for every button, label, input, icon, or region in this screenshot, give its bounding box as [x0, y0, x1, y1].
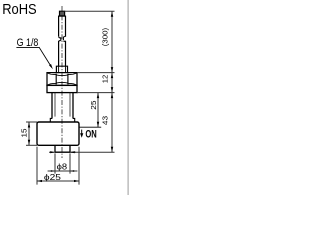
- leader arrowhead: [49, 64, 53, 69]
- label underline and leader: [16, 47, 51, 66]
- phi8 arrows at tip bottom: [49, 151, 76, 153]
- main body: [37, 122, 79, 145]
- thread minor lines: [55, 93, 70, 117]
- stem relief feet: [50, 118, 74, 122]
- dim line 12: [111, 73, 113, 93]
- phi25 extension lines: [37, 147, 79, 185]
- extension line cable top: [65, 10, 115, 12]
- hex nut: [47, 73, 77, 86]
- ON arrow: [81, 130, 83, 135]
- svg-text:15: 15: [19, 129, 28, 138]
- extension line tip bottom: [70, 151, 115, 153]
- dim line 43: [111, 93, 113, 153]
- extension line body bottom left: [26, 144, 37, 146]
- cable upper segment: [59, 16, 66, 37]
- phi8 extension lines: [55, 153, 70, 173]
- cable lower segment: [59, 41, 66, 66]
- svg-text:43: 43: [100, 116, 109, 125]
- cable break symbol: [59, 36, 66, 41]
- washer flange: [47, 85, 77, 92]
- bottom cylinder tip: [55, 145, 70, 152]
- dim line 15: [28, 122, 30, 145]
- centerline (vertical axis): [61, 6, 63, 158]
- gland collar: [56, 66, 67, 72]
- dim line 25: [97, 93, 99, 128]
- threaded stem G1/8 outer: [52, 93, 73, 119]
- svg-text:ϕ8: ϕ8: [57, 162, 68, 172]
- page table border line (right): [127, 0, 129, 195]
- svg-text:12: 12: [100, 75, 109, 83]
- extension line nut top: [77, 72, 115, 74]
- svg-text:ON: ON: [85, 128, 96, 140]
- svg-text:ϕ25: ϕ25: [44, 172, 61, 182]
- svg-text:25: 25: [89, 101, 98, 110]
- extension line body top left: [26, 121, 37, 123]
- phi25 dim line: [37, 180, 79, 182]
- svg-text:RoHS: RoHS: [2, 1, 37, 18]
- dim line (300): [111, 11, 113, 72]
- cable end cap: [60, 11, 65, 16]
- extension line washer bottom: [77, 92, 115, 94]
- ON level line: [79, 126, 101, 128]
- cable bore through collar: [59, 66, 66, 72]
- phi8 dim line: [48, 170, 78, 172]
- svg-text:(300): (300): [100, 28, 109, 46]
